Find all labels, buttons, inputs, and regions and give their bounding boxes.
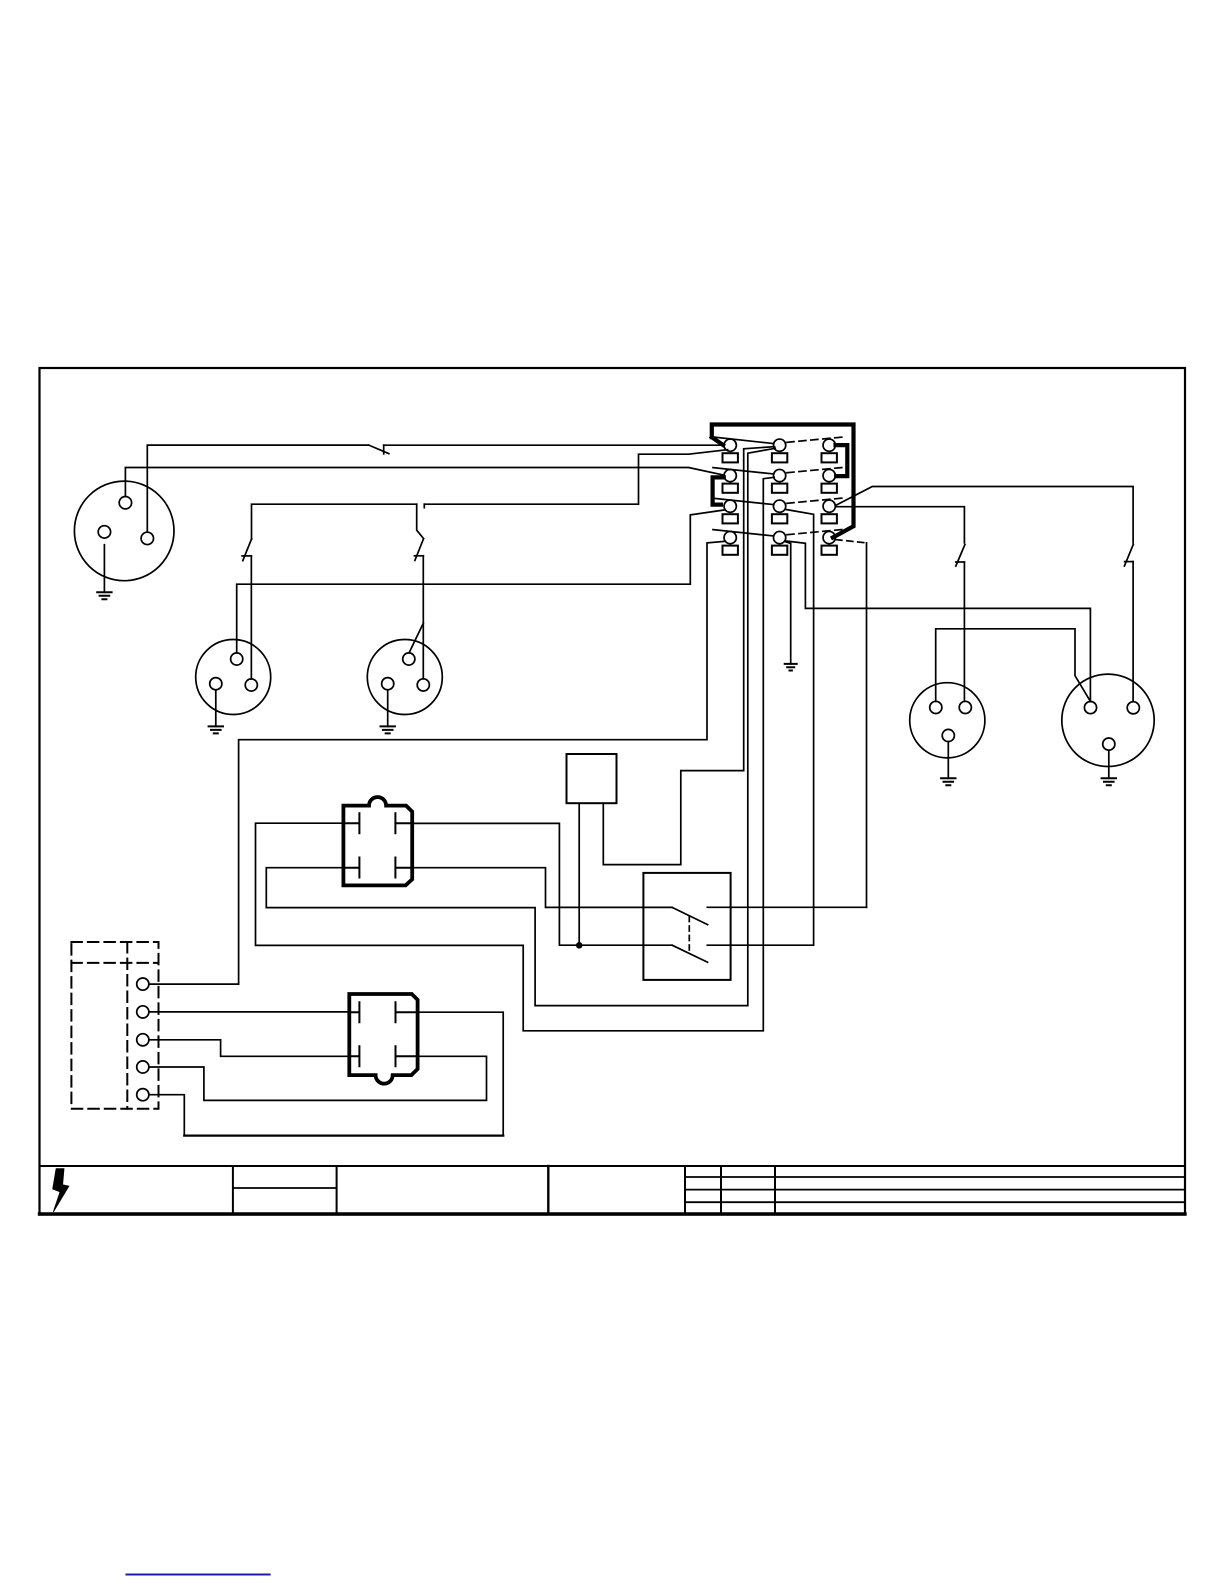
XLR P1 pin 1 (top) — [119, 497, 131, 509]
XLR P2 pin 1 (top) — [231, 653, 243, 665]
row 1 dashed link — [787, 437, 843, 442]
wire TB1 pin5 bottom run — [184, 1134, 503, 1136]
XLR P3 ground symbol — [381, 726, 395, 733]
pin B4 circle — [773, 531, 785, 543]
switch S6 upper blade — [672, 907, 708, 924]
pin C2 circle — [823, 469, 835, 481]
wire P1 pin3 to switch S1 — [147, 445, 368, 532]
pin B4 terminal rect — [772, 546, 787, 555]
connector J1 left bracket rows 2-3 — [713, 477, 724, 504]
pin A1 terminal rect — [723, 453, 738, 462]
XLR P3 ground wire — [387, 690, 389, 727]
XLR P5 ground symbol — [1102, 778, 1116, 785]
wire relay K1 bottom-right to switch box upper wire — [412, 868, 672, 908]
dashed link pin C4 — [836, 540, 867, 543]
pin B3 circle — [773, 500, 785, 512]
wire S4 to XLR P4 right pin — [963, 562, 965, 701]
XLR P1 pin 2 (left) — [98, 526, 110, 538]
XLR P2 shell circle — [196, 640, 271, 715]
relay K2 terminal top-right — [396, 1002, 418, 1022]
title block divider 4 — [684, 1166, 686, 1214]
title block revision row 1 — [685, 1176, 1185, 1178]
square M1 left leg to junction — [578, 803, 580, 945]
wire TB1 pin3 to relay K2 bottom-left — [149, 1040, 349, 1057]
wire connector pin A3 to XLR P2 pin1 — [237, 510, 725, 653]
relay K2 outline — [349, 994, 417, 1084]
XLR P4 ground wire — [947, 742, 949, 779]
switch S4 contact stub — [956, 561, 965, 563]
row 4 dashed link — [787, 529, 843, 534]
XLR P4 pin 2 (left) — [930, 701, 942, 713]
switch S6 upper fixed contact — [707, 906, 866, 908]
connector J1 right bracket rows 1-2 — [836, 445, 848, 476]
pin C2 terminal rect — [822, 484, 837, 493]
XLR P2 pin 2 (left) — [210, 678, 222, 690]
wire S2 to XLR P2 pin3 — [250, 556, 252, 679]
wire S1 to connector pin A1 — [384, 444, 724, 446]
row 1 link line — [713, 437, 774, 444]
pin C1 terminal rect — [822, 453, 837, 462]
switch S6 lower fixed contact — [707, 944, 813, 946]
title block revision row 3 — [685, 1201, 1185, 1203]
XLR P5 shell circle — [1062, 674, 1154, 766]
wire bus Y504 left segment — [252, 504, 417, 539]
switch S5 contact stub — [1125, 561, 1134, 563]
wire pin C4 to switch box upper contact — [866, 543, 868, 907]
switch S1 contact tick — [383, 445, 385, 454]
XLR P1 pin 3 (right) — [141, 532, 153, 544]
wire pin B1 to relay K1 bottom-left — [266, 448, 775, 1005]
XLR P4 shell circle — [910, 683, 985, 758]
XLR P3 shell circle — [367, 640, 442, 715]
row 3 dashed link — [787, 498, 843, 503]
wire S3 to XLR P3 pin3 — [422, 556, 424, 679]
switch S1 blade — [369, 445, 389, 454]
pin B2 circle — [773, 469, 785, 481]
pin B4 ground symbol — [785, 664, 797, 671]
wire branch to XLR P3 pin1 — [409, 623, 423, 652]
switch S3 contact stub — [414, 555, 423, 557]
terminal block TB1 dashed divider — [126, 942, 128, 1109]
terminal TB1 pin 1 — [137, 978, 149, 990]
wire TB1 pin4 to relay K2 bottom-right — [149, 1056, 487, 1100]
switch S3 drop wire — [417, 504, 424, 538]
relay K1 terminal bottom-left — [343, 858, 359, 878]
XLR P4 ground symbol — [941, 778, 955, 785]
title block mid cell line — [233, 1187, 337, 1189]
blue hyperlink underline — [127, 1574, 270, 1576]
pin A2 terminal rect — [723, 484, 738, 493]
XLR P2 ground symbol — [209, 726, 223, 733]
pin A2 circle — [724, 469, 736, 481]
switch S6 lower blade — [672, 945, 708, 962]
terminal TB1 pin 2 — [137, 1006, 149, 1018]
XLR P1 ground wire — [103, 545, 105, 593]
XLR P5 ground wire — [1108, 750, 1110, 778]
wire pin C3 to switch S4 — [836, 507, 965, 543]
title block top line — [40, 1165, 1186, 1167]
switch box S6 outline — [643, 873, 730, 980]
pin C3 circle — [823, 500, 835, 512]
wire S5 to XLR P5 right pin — [1132, 562, 1134, 702]
XLR P2 pin 3 (right) — [245, 679, 257, 691]
connector J1 shell outline — [712, 425, 854, 538]
pin C4 terminal rect — [822, 546, 837, 555]
XLR P5 pin 3 (right) — [1127, 702, 1139, 714]
XLR P3 pin 1 (top) — [403, 653, 415, 665]
relay K1 terminal top-left — [343, 813, 359, 833]
lightning bolt logo — [53, 1169, 69, 1212]
XLR P5 pin 2 (left) — [1084, 702, 1096, 714]
connector J1 shell left-top diagonal — [712, 437, 723, 445]
pin B3 terminal rect — [772, 514, 787, 523]
pin B1 circle — [773, 439, 785, 451]
switch S5 blade — [1124, 544, 1133, 566]
junction dot — [576, 942, 583, 949]
wire pin B4 ground drop — [785, 541, 791, 664]
wire pin B2 to relay K1 top-left — [256, 477, 775, 1031]
wire relay K1 top-right to switch box lower wire — [412, 823, 672, 945]
wire TB1 pin2 to relay K2 top-left — [149, 1011, 349, 1013]
switch S2 contact stub — [242, 555, 251, 557]
wire XLR P4 left pin to XLR P5 left pin — [936, 629, 1090, 702]
pin C3 terminal rect — [822, 514, 837, 523]
title block revision row 2 — [685, 1189, 1185, 1191]
relay K2 terminal bottom-right — [396, 1046, 418, 1066]
pin A3 terminal rect — [723, 514, 738, 523]
terminal TB1 pin 5 — [137, 1089, 149, 1101]
switch S4 blade — [956, 545, 965, 567]
wire pin B3 to switch box lower contact — [785, 509, 813, 945]
XLR P4 pin 1 (bottom) — [942, 729, 954, 741]
pin A1 circle — [724, 439, 736, 451]
title block divider 2 — [336, 1166, 338, 1214]
XLR P4 pin 3 (right) — [959, 701, 971, 713]
relay K1 terminal bottom-right — [395, 858, 412, 878]
switch S3 contact tick — [423, 504, 425, 508]
pin A4 terminal rect — [723, 546, 738, 555]
switch S6 mechanical dashed link — [688, 917, 690, 953]
pin A3 circle — [724, 500, 736, 512]
XLR P3 pin 2 (left) — [382, 678, 394, 690]
title block divider 3 — [547, 1166, 549, 1214]
terminal block TB1 dashed top cell line — [71, 962, 158, 964]
relay K1 outline — [343, 797, 412, 885]
title block bottom thick line — [40, 1212, 1186, 1215]
wire pin A1 branch to bus Y504 — [424, 450, 727, 505]
row 4 link line — [713, 530, 774, 536]
terminal TB1 pin 3 — [137, 1034, 149, 1046]
title block divider 1 — [232, 1166, 234, 1214]
pin C4 circle — [823, 531, 835, 543]
row 3 link line — [713, 498, 774, 504]
relay K1 terminal top-right — [395, 813, 412, 833]
wire TB1 pin5 to relay K2 top-right — [149, 1012, 503, 1135]
terminal TB1 pin 4 — [137, 1061, 149, 1073]
XLR P1 top-left shell circle — [74, 481, 174, 581]
drawing border frame — [40, 368, 1186, 1215]
pin B1 terminal rect — [772, 453, 787, 462]
XLR P5 pin 1 (bottom) — [1103, 738, 1115, 750]
switch S3 blade — [415, 539, 424, 561]
XLR P1 ground symbol — [97, 592, 111, 599]
pin B2 terminal rect — [772, 484, 787, 493]
relay K2 terminal bottom-left — [349, 1046, 359, 1066]
control square M1 — [567, 754, 617, 803]
title block divider 6 — [774, 1166, 776, 1214]
pin A4 circle — [724, 531, 736, 543]
wire pin B4 to XLR P5 left pin — [785, 541, 1091, 702]
XLR P3 pin 3 (right) — [417, 679, 429, 691]
wire pin B1 to square right leg — [603, 447, 774, 865]
wire P1 pin1 to connector pin A2 — [125, 468, 724, 497]
wire pin C3 diagonal to switch S5 — [836, 487, 1133, 543]
pin C1 circle — [823, 439, 835, 451]
row 2 link line — [713, 468, 774, 474]
switch S2 blade — [243, 539, 252, 561]
terminal block TB1 dashed outline — [71, 942, 158, 1109]
relay K2 terminal top-left — [349, 1002, 359, 1022]
XLR P2 ground wire — [215, 690, 217, 727]
wire connector pin A4 to terminal pin 1 — [149, 541, 726, 984]
title block divider 5 — [720, 1166, 722, 1214]
row 2 dashed link — [787, 467, 843, 472]
